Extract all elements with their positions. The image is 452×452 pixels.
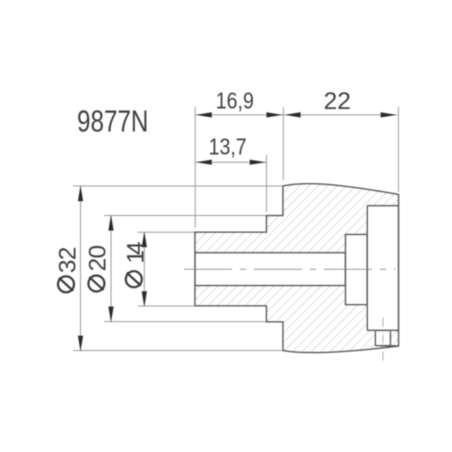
svg-text:32: 32 <box>54 247 81 273</box>
svg-text:22: 22 <box>324 88 351 115</box>
svg-text:13,7: 13,7 <box>209 134 247 160</box>
svg-text:16,9: 16,9 <box>216 88 254 114</box>
svg-text:20: 20 <box>84 246 111 272</box>
svg-text:9877N: 9877N <box>77 104 148 138</box>
